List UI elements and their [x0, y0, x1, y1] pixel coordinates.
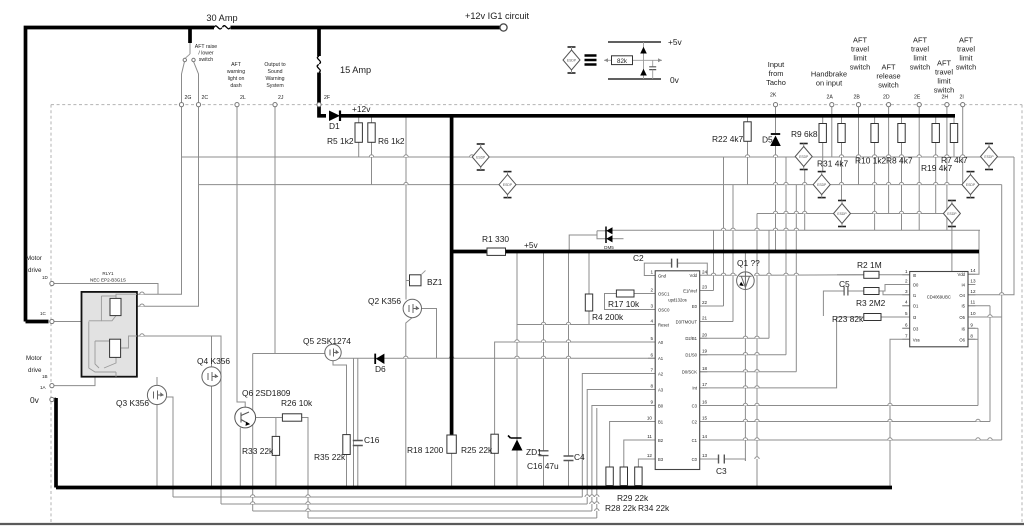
terminal 1D	[50, 281, 54, 285]
wire switch feed	[189, 43, 191, 54]
wire R6 column from +12v rail to net2	[371, 116, 373, 185]
svg-text:22: 22	[702, 300, 708, 305]
svg-text:2D: 2D	[883, 95, 890, 101]
wire 2B column to net2	[858, 107, 860, 185]
wire IC1 B3 row pin12 to R34	[638, 459, 655, 467]
svg-text:R17 10k: R17 10k	[608, 299, 640, 309]
svg-text:8: 8	[970, 333, 973, 338]
svg-text:C5: C5	[839, 279, 850, 289]
wire Q1 collector from +5v rail	[744, 252, 746, 273]
wire CD4069 pin11 row to col 990	[968, 305, 990, 307]
wire R34 bottom	[637, 486, 639, 488]
wire DM5 bottom diode right stub	[613, 238, 624, 240]
IC2 pin numbers right	[970, 268, 976, 338]
svg-text:7: 7	[905, 333, 908, 338]
wire Q5 gate column down through rail	[252, 354, 254, 512]
wire D6 net / A1 row y=358.3 from Q5 to IC1 pin 6	[338, 357, 655, 359]
wire R19 top stub	[935, 116, 937, 124]
svg-text:15: 15	[702, 416, 708, 421]
wire 2L column down to Q6 collector	[237, 105, 245, 408]
svg-text:9: 9	[970, 322, 973, 327]
svg-text:O4: O4	[959, 293, 965, 298]
wire pin23 row	[700, 290, 714, 292]
svg-text:B3: B3	[658, 457, 664, 462]
svg-text:Warning: Warning	[265, 76, 284, 82]
wire hop bumps on net3	[773, 211, 949, 213]
wire Q2 source down to 0v rail	[406, 318, 413, 488]
resistor R23 82k	[864, 314, 881, 321]
wire IC1 right pin stubs	[700, 275, 708, 459]
wire C3 cap to Q1 emitter column	[725, 459, 746, 461]
svg-text:O6: O6	[959, 337, 965, 342]
svg-text:+5v: +5v	[524, 240, 539, 250]
wire 2J column down to Q5 gate net	[274, 105, 276, 354]
svg-text:0v: 0v	[30, 395, 40, 405]
svg-text:on input: on input	[816, 79, 842, 88]
wire IC1 C3 row pin16 to col 978	[700, 405, 978, 407]
svg-text:1A: 1A	[40, 385, 47, 390]
transistor Q6 2SD1809	[235, 407, 256, 428]
wire A0 row y=342 from elbow to IC1 pin 5	[495, 342, 656, 358]
svg-text:+12v IG1 circuit: +12v IG1 circuit	[465, 11, 530, 21]
wire col 723.5 net1 to pin22 row	[723, 157, 725, 306]
transistor Q3 K356	[147, 385, 166, 404]
svg-text:Vdd: Vdd	[958, 272, 966, 277]
wire CD4069 pin6 stub	[902, 327, 909, 329]
resistor R18 1200	[447, 435, 456, 453]
svg-text:Q5 2SK1274: Q5 2SK1274	[303, 336, 351, 346]
legend cap	[652, 60, 654, 66]
wire 30 Amp fuse squiggle	[214, 26, 230, 29]
svg-text:Reset: Reset	[658, 322, 670, 327]
svg-text:Vss: Vss	[913, 337, 920, 342]
svg-text:R35 22k: R35 22k	[314, 452, 346, 462]
legend 0v line	[608, 78, 661, 80]
svg-text:R6 1k2: R6 1k2	[378, 136, 405, 146]
wire 2E column to netD	[918, 107, 920, 231]
thick +5v rail right of R1	[506, 250, 980, 254]
svg-text:/ lower: / lower	[198, 51, 214, 57]
wire R2 right to CD4069 pin1	[879, 274, 910, 276]
wire C2 loop from IC1 pin1 to pin24	[644, 263, 671, 275]
wire relay contact2 out to Q4 column	[137, 336, 221, 504]
capacitor C4	[564, 456, 574, 461]
svg-text:10: 10	[647, 416, 653, 421]
svg-text:D5: D5	[762, 135, 773, 145]
svg-text:R5 1k2: R5 1k2	[327, 136, 354, 146]
thick 0v rail horizontal	[56, 486, 892, 490]
wire hop bumps on IC1 right rows	[743, 336, 992, 459]
wire hop bumps on netD	[721, 228, 798, 230]
resistor R10 1k2	[871, 124, 878, 143]
svg-text:17: 17	[702, 382, 708, 387]
diode DM5 bottom	[606, 235, 612, 242]
ESD suppressor net1 right b	[981, 144, 998, 170]
wire CD4069 Vdd column above rail to netD	[978, 230, 980, 251]
wire OSC1 row R17 to pin2	[634, 293, 655, 295]
wire Q4 source to 0v rail	[211, 386, 213, 488]
svg-text:Tacho: Tacho	[766, 78, 786, 87]
svg-text:Output to: Output to	[264, 62, 285, 68]
svg-text:switch: switch	[850, 63, 871, 72]
relay RLY1 body	[82, 292, 137, 377]
svg-text:R23 82k: R23 82k	[832, 314, 864, 324]
resistor R29 22k	[620, 467, 627, 486]
resistor R8 4k7	[898, 124, 905, 143]
svg-text:AFT raise: AFT raise	[195, 44, 218, 50]
svg-text:drive: drive	[28, 367, 42, 374]
svg-text:B2: B2	[658, 438, 664, 443]
svg-text:R29 22k: R29 22k	[617, 493, 649, 503]
capacitor C16	[353, 441, 363, 446]
legend equivalence bars	[585, 56, 597, 65]
resistor R6 1k2	[368, 123, 375, 143]
svg-text:8: 8	[650, 384, 653, 389]
svg-text:15 Amp: 15 Amp	[340, 65, 371, 75]
svg-text:AFT: AFT	[231, 62, 242, 68]
wire net2 right end drop column	[1001, 185, 1003, 440]
transistor Q4 K356	[202, 367, 221, 386]
wire R5 column from +12v rail to net1	[358, 116, 360, 157]
ESD suppressor on net2 mid	[499, 172, 516, 198]
wire Q1 emitter down to C3 row	[744, 289, 746, 461]
svg-text:upd132os: upd132os	[668, 298, 686, 303]
wire R28 bottom	[609, 486, 611, 488]
ESD suppressor net2 right b	[962, 172, 979, 198]
svg-text:R4 200k: R4 200k	[592, 312, 624, 322]
wire pin18 row	[700, 371, 797, 373]
thick 0v rail vertical	[54, 398, 58, 488]
svg-text:R18 1200: R18 1200	[407, 445, 444, 455]
svg-text:CD4069UBC: CD4069UBC	[927, 294, 951, 299]
wire IC1 C1 row pin14 to col 1001.7	[700, 439, 1002, 441]
svg-text:switch: switch	[910, 63, 931, 72]
terminal 2F	[317, 103, 321, 107]
wire R29 bottom	[623, 486, 625, 488]
svg-text:4: 4	[650, 319, 653, 324]
dashed controller enclosure border top	[51, 104, 1022, 106]
svg-text:6: 6	[650, 352, 653, 357]
svg-text:R25 22k: R25 22k	[461, 445, 493, 455]
thick +5v rail left of R1	[452, 250, 488, 254]
terminal 1C	[50, 319, 54, 323]
wire net3 ESD column to CD4069 pin13 row	[952, 220, 968, 285]
svg-text:AFT: AFT	[882, 63, 896, 72]
wire R33 tap down to 0v rail	[275, 418, 277, 437]
resistor R3 2M2	[864, 288, 879, 295]
wire IC1 B2 row pin11 to R29	[624, 440, 655, 467]
wire hop bumps on net2	[404, 182, 949, 184]
transistor Q1	[737, 272, 755, 290]
svg-text:2J: 2J	[278, 95, 284, 101]
wire hop bumps on below-rail wires	[251, 495, 600, 511]
wire R3 left to C5	[848, 290, 864, 292]
svg-text:5: 5	[905, 311, 908, 316]
resistor R25 22k	[491, 434, 498, 453]
svg-text:2C: 2C	[202, 95, 209, 101]
wire R4 bottom to Reset row	[588, 311, 590, 325]
diode D5	[770, 136, 781, 147]
svg-text:BZ1: BZ1	[427, 277, 443, 287]
resistor R4 200k	[585, 294, 592, 311]
svg-text:RLY1: RLY1	[102, 271, 114, 276]
svg-text:R33 22k: R33 22k	[242, 446, 274, 456]
wire hop bumps on D6/A1 row	[404, 356, 571, 358]
svg-text:travel: travel	[851, 45, 869, 54]
svg-text:13: 13	[970, 279, 976, 284]
wire below-rail y=497 Q3 gate to col 582.3	[173, 496, 582, 498]
svg-text:Q4 K356: Q4 K356	[197, 356, 230, 366]
wire Q1 base row to R2	[754, 274, 864, 277]
svg-text:16: 16	[702, 400, 708, 405]
wire col 786 net1 to pin19 row	[785, 157, 787, 355]
IC1 pin names left column	[658, 273, 670, 462]
wire col 990 down to C2 row	[989, 306, 991, 422]
svg-text:ZD1: ZD1	[526, 447, 542, 457]
wire CD4069 pin9 row to col 978	[968, 327, 978, 329]
ESD suppressor on net1 mid	[472, 144, 489, 170]
svg-text:O3: O3	[913, 326, 919, 331]
svg-text:R2 1M: R2 1M	[857, 260, 882, 270]
wire 2K column through D5 to netD	[775, 107, 777, 133]
svg-text:2B: 2B	[854, 95, 861, 101]
svg-text:6: 6	[905, 322, 908, 327]
resistor R1 330 on +5v rail	[487, 248, 506, 255]
wire 2I column to net2	[962, 107, 964, 185]
svg-text:R9 6k8: R9 6k8	[791, 129, 818, 139]
capacitor C16 47u	[539, 451, 549, 456]
wire col 796.3 net2 to pin18 row	[795, 185, 797, 372]
IC2 pin names left column	[913, 273, 920, 343]
svg-text:limit: limit	[937, 77, 950, 86]
thick drop to 15 Amp fuse	[317, 28, 321, 57]
wire Q3 gate column	[167, 397, 174, 497]
svg-text:5: 5	[650, 336, 653, 341]
relay contact element top	[110, 298, 121, 315]
wire pin22 row	[700, 305, 724, 307]
wire R31 bottom to net3	[841, 142, 843, 201]
legend +5v line	[608, 41, 661, 43]
svg-text:D0/SCK: D0/SCK	[682, 370, 697, 375]
capacitor C3	[719, 455, 725, 464]
svg-text:R31 4k7: R31 4k7	[817, 159, 849, 169]
svg-text:C2: C2	[633, 253, 644, 263]
wire Q2 gate L to D6 net	[421, 309, 436, 359]
wire R25 column	[494, 358, 496, 434]
wire Q4 drain up	[211, 336, 213, 367]
resistor R26 10k	[282, 414, 301, 421]
thick 1C feed from left rail	[26, 320, 49, 324]
ESD suppressor net3 right	[943, 201, 960, 227]
svg-text:2: 2	[905, 279, 908, 284]
wire motor drive 1C into relay	[54, 321, 89, 323]
svg-text:limit: limit	[913, 54, 926, 63]
legend mid wire with arrows	[604, 59, 662, 61]
thick from fuse to 2F terminal and +12v rail	[319, 73, 326, 116]
terminal 2I	[961, 103, 965, 107]
svg-text:7: 7	[650, 368, 653, 373]
wire spare column x=353.5 to 0v rail	[353, 358, 355, 487]
svg-text:release: release	[876, 72, 900, 81]
wire motor drive 1A to relay coil bottom	[54, 377, 95, 386]
wire R8 top stub	[901, 116, 903, 124]
svg-text:1C: 1C	[40, 311, 47, 316]
thick stub down to AFT raise/lower switch	[188, 28, 192, 44]
svg-text:1D: 1D	[42, 275, 49, 280]
svg-text:DM5: DM5	[604, 245, 614, 250]
terminal 0v	[50, 397, 54, 401]
svg-text:switch: switch	[199, 57, 214, 63]
wire 2H column to netD	[946, 107, 948, 231]
svg-text:D1: D1	[329, 121, 340, 131]
svg-text:2F: 2F	[324, 95, 330, 101]
wire CD4069 pin2 jog to R3	[879, 285, 910, 292]
svg-text:R34 22k: R34 22k	[638, 503, 670, 513]
wire Q3 source to 0v rail	[156, 405, 158, 488]
wire hop bumps on Q1 base row	[711, 273, 798, 275]
wire B0 row to drop column x=591.9	[592, 406, 655, 512]
terminal 2K	[773, 103, 777, 107]
dashed enclosure border right	[1021, 105, 1023, 523]
svg-text:R10 1k2: R10 1k2	[855, 156, 887, 166]
wire below-rail y=518 R26 to col 596.8	[308, 517, 597, 519]
svg-text:1B: 1B	[42, 374, 48, 379]
ESD suppressor net2 right a	[813, 172, 830, 198]
wire C16 column from D6 net to 0v rail	[357, 358, 359, 440]
wire net1 right end drop to CD4069 pin12 row	[968, 157, 1014, 295]
wire CD4069 pin3 row to C5	[883, 291, 910, 295]
wire R7 top stub	[953, 116, 955, 124]
IC2 pin names right column	[958, 272, 966, 342]
svg-text:travel: travel	[935, 68, 953, 77]
wire CD4069 left pin stubs	[902, 275, 909, 340]
svg-text:OSC0: OSC0	[658, 307, 670, 312]
resistor R33 22k	[272, 436, 279, 455]
svg-text:Q6 2SD1809: Q6 2SD1809	[242, 388, 291, 398]
wire IC1 C2 row pin15 to col 990	[700, 421, 990, 423]
svg-text:10: 10	[970, 311, 976, 316]
wire net1 horizontal y=157 from 2G column across to far right	[182, 156, 1015, 158]
resistor R9 6k8	[819, 124, 826, 143]
wire pin19 row	[700, 354, 786, 356]
svg-text:limit: limit	[853, 54, 866, 63]
svg-text:D1/S0: D1/S0	[685, 353, 697, 358]
svg-text:switch: switch	[934, 86, 955, 95]
terminal 2C	[196, 103, 200, 107]
wire CD4069 Vss pin7 down to 0v rail end	[890, 339, 910, 487]
svg-text:3: 3	[905, 289, 908, 294]
wire ESD1b column to netD	[804, 170, 806, 230]
wire R8 bottom to netD	[901, 142, 903, 230]
svg-text:travel: travel	[957, 45, 975, 54]
wire hop bumps at relay contact exits	[140, 292, 144, 336]
resistor R31 4k7	[838, 124, 845, 143]
wire CD4069 pin8 O6 stub to col 978	[968, 338, 978, 340]
wire C4 column from +5v rail to 0v rail	[568, 252, 570, 457]
svg-text:Gnd: Gnd	[658, 273, 667, 278]
svg-text:D3/TMOUT: D3/TMOUT	[676, 319, 698, 324]
svg-text:C2: C2	[692, 419, 698, 424]
wire 2K/D5 column continuing below netD to +5v rail	[775, 230, 777, 251]
wire drop column x=596.8 to below-rail	[596, 408, 598, 518]
wire CD4069 pin10 row	[968, 316, 1002, 318]
svg-text:R22 4k7: R22 4k7	[712, 134, 744, 144]
terminal 2E	[917, 103, 921, 107]
wire col 978 down to C3 row	[977, 328, 979, 405]
svg-text:D6: D6	[375, 364, 386, 374]
svg-text:A3: A3	[658, 387, 664, 392]
svg-text:AFT: AFT	[937, 59, 951, 68]
wire R23 left to Int column	[837, 316, 864, 318]
svg-text:warning: warning	[227, 69, 245, 75]
wire pin17 Int row to R23 column	[700, 317, 837, 388]
capacitor C2	[672, 259, 678, 268]
svg-text:dash: dash	[230, 83, 241, 89]
svg-text:2K: 2K	[770, 93, 777, 99]
wire R17 parallel U loop pins 2-3	[605, 294, 656, 310]
wire hop bump on CD4069 pin10 row	[988, 315, 992, 317]
svg-text:B0: B0	[658, 403, 664, 408]
wire Q5 gate stub to column x=252.7	[253, 353, 325, 355]
svg-text:12: 12	[647, 453, 653, 458]
resistor R35 22k	[343, 435, 350, 455]
svg-text:13: 13	[702, 453, 708, 458]
svg-text:A1: A1	[658, 356, 664, 361]
IC1 pin numbers right	[702, 269, 708, 458]
svg-text:24: 24	[702, 269, 708, 274]
thick distribution vertical to R18	[450, 116, 454, 435]
diode D1 on +12v rail	[329, 111, 340, 122]
svg-text:1: 1	[905, 269, 908, 274]
wire R26 right end down to below-rail	[302, 418, 308, 519]
svg-text:30 Amp: 30 Amp	[206, 13, 237, 23]
svg-text:NEC EP2-B3G1S: NEC EP2-B3G1S	[90, 278, 126, 283]
dashed enclosure border left	[50, 105, 52, 523]
wire CD4069 pin5 stub to R23	[881, 316, 910, 318]
svg-text:2I: 2I	[960, 95, 964, 101]
svg-text:Vdd: Vdd	[690, 273, 698, 278]
resistor R17 10k	[616, 290, 634, 297]
wire netD horizontal y=230.3 from DM5 to right side	[613, 229, 981, 231]
resistor R22 4k7	[744, 122, 751, 142]
svg-text:AFT: AFT	[913, 36, 927, 45]
wire 2C column from switch to relay contact	[137, 62, 199, 307]
bottom page edge line	[0, 523, 1024, 525]
svg-text:14: 14	[702, 434, 708, 439]
wire R10 top stub	[874, 116, 876, 124]
IC2 CD4069UBC body	[910, 272, 968, 347]
svg-text:Q3 K356: Q3 K356	[116, 398, 149, 408]
svg-text:B1: B1	[658, 419, 664, 424]
svg-text:limit: limit	[959, 54, 972, 63]
svg-text:Input: Input	[768, 60, 784, 69]
wire net3 horizontal y=213.5 right side	[757, 213, 958, 215]
svg-text:switch: switch	[878, 81, 899, 90]
svg-text:12: 12	[970, 289, 976, 294]
resistor R5 1k2	[355, 123, 362, 143]
svg-text:2H: 2H	[942, 95, 949, 101]
svg-text:82k: 82k	[617, 58, 628, 65]
wire C5 left plate lead	[823, 291, 843, 316]
wire ZD1 column from +5v rail to 0v rail	[516, 252, 518, 488]
wire pin20 row	[700, 337, 769, 339]
relay internal wiring	[89, 294, 137, 377]
svg-text:+12v: +12v	[352, 104, 371, 114]
terminal +12v IG1 circuit	[500, 24, 507, 31]
terminal 2B	[856, 103, 860, 107]
svg-text:2L: 2L	[240, 95, 246, 101]
svg-text:A2: A2	[658, 371, 664, 376]
